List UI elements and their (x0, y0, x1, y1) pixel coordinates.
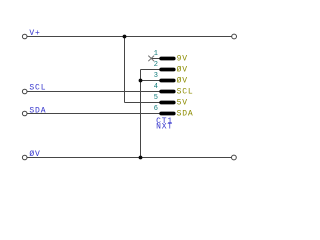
svg-text:ØV: ØV (177, 76, 188, 85)
svg-text:ØV: ØV (177, 65, 188, 74)
svg-text:SCL: SCL (29, 84, 46, 93)
svg-text:V+: V+ (29, 29, 40, 38)
svg-text:4: 4 (154, 83, 158, 91)
svg-text:NXT: NXT (156, 123, 173, 132)
svg-text:ØV: ØV (29, 150, 40, 159)
svg-text:1: 1 (154, 50, 158, 58)
svg-text:3: 3 (154, 72, 158, 80)
svg-text:9V: 9V (177, 54, 188, 63)
svg-text:SDA: SDA (177, 109, 194, 118)
svg-text:SCL: SCL (177, 87, 194, 96)
svg-text:SDA: SDA (29, 106, 46, 115)
svg-text:5V: 5V (177, 98, 188, 107)
svg-text:5: 5 (154, 94, 158, 102)
svg-text:2: 2 (154, 61, 158, 69)
svg-text:6: 6 (154, 105, 158, 113)
